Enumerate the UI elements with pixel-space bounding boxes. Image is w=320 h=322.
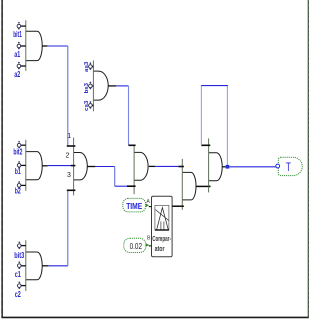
svg-text:bs3: bs3: [84, 82, 90, 93]
svg-text:a2: a2: [14, 69, 20, 79]
page border left: [1, 0, 3, 318]
AND gate U4 (bit3) body: [26, 252, 42, 280]
U8 pin 1 tick: [201, 144, 210, 146]
0.02 output arrow: [146, 243, 149, 247]
U1 pin 2 wire stub: [21, 45, 26, 47]
comparator icon baseline thick: [155, 229, 169, 231]
svg-text:2: 2: [65, 153, 69, 160]
svg-text:cs3: cs3: [84, 100, 90, 111]
svg-text:c1: c1: [15, 269, 21, 279]
U1 pin 1 terminal circle: [17, 22, 21, 30]
svg-text:0.02: 0.02: [130, 242, 143, 251]
AND gate U4 input bar: [25, 240, 27, 291]
U1 pin 3 wire stub: [21, 65, 26, 67]
U1 output stub: [42, 45, 47, 47]
comparator icon bars: [160, 222, 162, 230]
wire U2 out to U6 pin1 (vertical): [128, 86, 130, 145]
U2 output stub: [108, 85, 116, 87]
svg-text:b1: b1: [15, 166, 21, 176]
comparator icon frame: [155, 205, 169, 229]
U1 pin 3 terminal circle: [17, 62, 21, 70]
AND gate U2 (a3/b3/c3) body: [93, 71, 108, 100]
U2 pin 1 wire stub: [92, 66, 93, 68]
svg-text:A: A: [146, 199, 150, 205]
U3 pin 2 terminal circle: [17, 161, 21, 169]
junction dot at U8 output: [226, 165, 230, 169]
comparator icon diagonal threshold: [155, 210, 168, 221]
wire U4 out to U5 pin3 (vertical): [67, 190, 69, 265]
svg-text:TIME: TIME: [126, 201, 142, 211]
TIME source pill: [123, 198, 146, 212]
AND gate U3 input bar: [25, 140, 27, 191]
U3 pin 1 terminal circle: [17, 141, 21, 149]
U2 pin 3 wire stub: [92, 104, 93, 106]
AND gate U5 input bar: [73, 138, 75, 196]
wire U5 out to U6 pin2 (vertical jog): [114, 167, 116, 187]
U5 pin 1 tick: [67, 145, 76, 147]
wire U5 out to U6 pin2 (horizontal): [95, 166, 114, 168]
U4 output stub: [42, 265, 48, 267]
svg-text:B: B: [147, 236, 151, 242]
comparator pin A stub: [149, 206, 152, 208]
svg-text:1: 1: [67, 133, 71, 140]
comparator pin B stub: [149, 245, 152, 247]
wire U1 out to U5 pin1 (horizontal): [47, 45, 67, 47]
0.02 constant pill: [124, 238, 146, 252]
feedback wire: left vertical down to U8 pin1: [200, 86, 202, 146]
svg-text:T: T: [286, 162, 291, 174]
U3 pin 1 wire stub: [21, 144, 26, 146]
feedback wire: top horizontal: [201, 85, 228, 87]
svg-text:3: 3: [67, 172, 71, 179]
svg-text:a1: a1: [14, 49, 20, 59]
U6 output stub: [149, 165, 155, 167]
terminal T pill: [278, 157, 302, 175]
U2 pin 2 wire stub: [92, 85, 93, 87]
U6 pin 2 tick: [127, 185, 136, 187]
feedback wire: junction up right side: [226, 86, 228, 167]
U7 pin 2 tick: [172, 205, 184, 207]
wire U1 out to U5 pin1 (vertical): [67, 46, 69, 146]
U5 pin 2 tick: [71, 165, 76, 167]
U4 pin 3 terminal circle: [18, 281, 22, 289]
AND gate U6 input bar: [133, 145, 135, 195]
TIME output arrow: [146, 203, 149, 207]
U3 pin 3 wire stub: [21, 184, 26, 186]
U3 pin 3 terminal circle: [17, 181, 21, 189]
AND gate U2 input bar: [92, 60, 94, 111]
comparator output wire to U7 pin2: [172, 205, 183, 207]
AND gate U1 input bar: [25, 20, 27, 71]
U2 pin 3 terminal circle: [89, 101, 93, 109]
svg-text:bit3: bit3: [14, 250, 24, 260]
AND gate U1 (bit1) body: [26, 31, 42, 60]
svg-text:bit2: bit2: [13, 146, 22, 156]
comparator icon triangle: [157, 208, 169, 230]
AND gate U7 input bar: [181, 159, 183, 210]
U3 pin 2 wire stub: [21, 164, 26, 166]
AND gate U6 (2-input) body: [134, 152, 148, 180]
wire U2 out to U6 pin1 (horizontal): [116, 85, 128, 87]
U8 pin 2 tick (from U7 output): [209, 185, 211, 187]
svg-text:as3: as3: [84, 61, 90, 72]
U7 output stub: [196, 185, 211, 187]
svg-text:Compar-: Compar-: [152, 234, 171, 243]
U4 pin 1 wire stub: [21, 245, 26, 247]
U4 pin 2 wire stub: [21, 265, 26, 267]
wire U4 out to U5 pin3 (horizontal): [48, 265, 67, 267]
comparator block U9 box: [152, 196, 173, 256]
U5 pin 3 tick: [67, 189, 76, 191]
svg-text:b2: b2: [15, 186, 21, 196]
U5 output stub: [87, 166, 95, 168]
U4 pin 2 terminal circle: [18, 261, 22, 269]
AND gate U3 (bit2) body: [26, 152, 42, 180]
AND gate U8 input bar: [208, 138, 210, 192]
svg-text:ator: ator: [155, 244, 165, 253]
U1 pin 1 wire stub: [21, 25, 26, 27]
U2 pin 2 terminal circle: [89, 82, 93, 90]
U7 pin 1 tick: [178, 166, 184, 168]
terminal T input circle: [276, 164, 280, 168]
svg-text:bit1: bit1: [13, 29, 22, 39]
U8 output stub: [222, 166, 225, 168]
U1 pin 2 terminal circle: [17, 42, 21, 50]
wire U8 out to terminal T: [229, 166, 276, 168]
U6 pin 1 tick: [129, 144, 136, 146]
AND gate U5 (middle 3-input) body: [74, 153, 88, 180]
wire U6 out to U7 pin1: [155, 165, 178, 167]
wire U5 out to U6 pin2 (horizontal 2): [115, 185, 127, 187]
page border right: [307, 0, 309, 318]
U4 pin 1 terminal circle: [18, 241, 22, 249]
U3 output stub: [42, 165, 48, 167]
page border bottom: [2, 316, 309, 318]
wire U3 out to U5 pin2: [48, 165, 72, 167]
AND gate U7 (2-input) body: [182, 172, 196, 200]
AND gate U8 (2-input, output) body: [209, 153, 223, 181]
svg-text:c2: c2: [15, 289, 21, 299]
U2 pin 1 terminal circle: [89, 62, 93, 70]
U4 pin 3 wire stub: [21, 285, 26, 287]
